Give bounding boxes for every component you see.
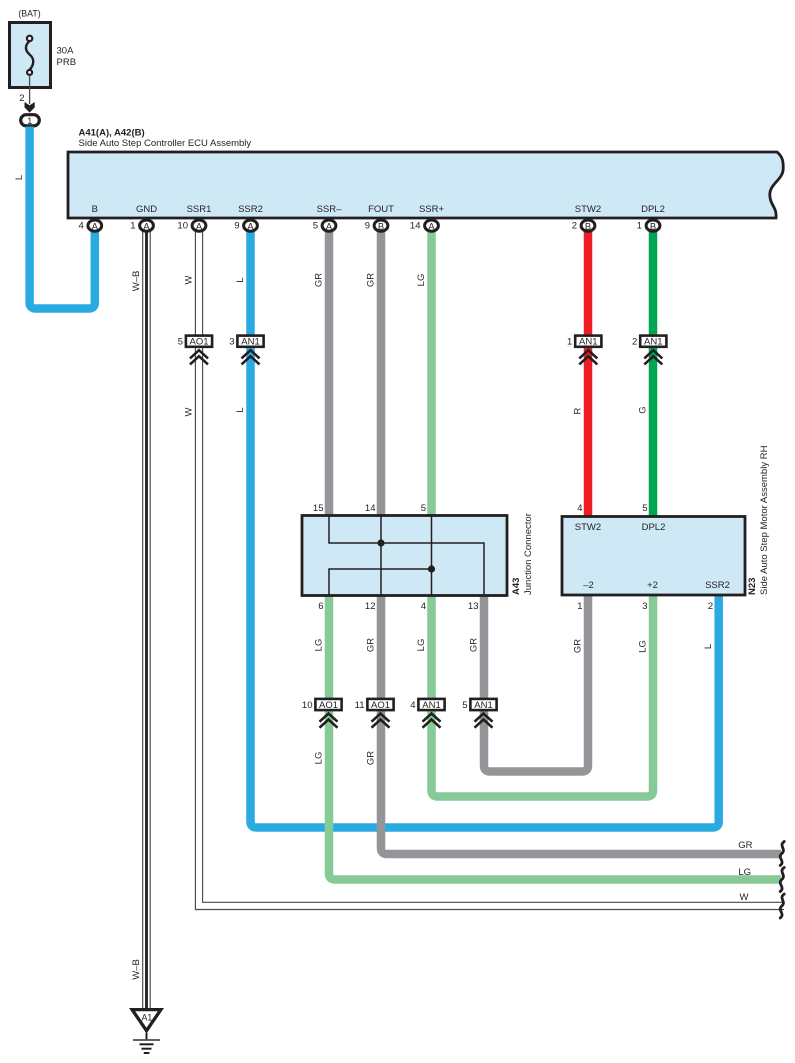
svg-text:A: A	[92, 220, 99, 231]
ECU pin 4 (A)	[79, 220, 102, 232]
wire fuse pin 2 lead	[29, 75, 31, 104]
svg-text:DPL2: DPL2	[641, 204, 665, 215]
ECU pin 14 (A)	[410, 220, 438, 232]
svg-text:AO1: AO1	[371, 700, 390, 711]
junction connector A43 box	[302, 516, 507, 596]
svg-text:5: 5	[178, 337, 183, 348]
svg-text:12: 12	[365, 601, 376, 612]
svg-text:1: 1	[637, 221, 642, 232]
svg-text:Side Auto Step Motor Assembly: Side Auto Step Motor Assembly RH	[759, 445, 770, 595]
svg-text:B: B	[650, 220, 656, 231]
svg-text:+2: +2	[647, 580, 658, 591]
svg-text:A: A	[196, 220, 203, 231]
svg-text:GR: GR	[366, 751, 377, 765]
svg-text:L: L	[235, 407, 246, 412]
svg-text:30A: 30A	[57, 46, 75, 57]
svg-text:GR: GR	[366, 273, 377, 287]
svg-text:AN1: AN1	[644, 337, 662, 348]
svg-text:A1: A1	[142, 1013, 153, 1023]
svg-text:4: 4	[421, 601, 426, 612]
ECU pin 9 (B)	[365, 220, 388, 232]
svg-text:W–B: W–B	[131, 959, 142, 980]
svg-text:1: 1	[130, 221, 135, 232]
svg-text:LG: LG	[638, 640, 649, 653]
svg-text:A: A	[247, 220, 254, 231]
svg-text:AO1: AO1	[189, 337, 208, 348]
svg-text:SSR1: SSR1	[187, 204, 212, 215]
svg-text:DPL2: DPL2	[642, 522, 666, 533]
svg-text:10: 10	[177, 221, 188, 232]
svg-text:9: 9	[234, 221, 239, 232]
wire R STW2 from ECU to motor pin 4	[584, 230, 593, 518]
svg-text:14: 14	[365, 503, 376, 514]
connector 10 AO1	[302, 699, 342, 728]
svg-text:4: 4	[577, 503, 582, 514]
svg-text:6: 6	[318, 601, 323, 612]
svg-text:4: 4	[79, 221, 84, 232]
svg-text:G: G	[638, 406, 649, 413]
svg-text:GR: GR	[469, 638, 480, 652]
ECU pin 1 (B)	[637, 220, 660, 232]
svg-text:(BAT): (BAT)	[18, 9, 40, 19]
svg-text:3: 3	[642, 601, 647, 612]
svg-text:W: W	[740, 892, 749, 903]
ECU pin 5 (A)	[313, 220, 336, 232]
svg-text:GR: GR	[573, 639, 584, 653]
svg-text:2: 2	[19, 93, 24, 104]
svg-text:L: L	[703, 644, 714, 649]
ground symbol A1	[129, 1008, 164, 1053]
svg-text:GR: GR	[366, 638, 377, 652]
fuse 30A PRB	[10, 23, 51, 88]
svg-text:AN1: AN1	[422, 700, 440, 711]
junction A43 internal wiring	[329, 516, 484, 595]
svg-text:B: B	[92, 204, 98, 215]
break squiggle W wire	[780, 894, 784, 918]
svg-text:5: 5	[462, 700, 467, 711]
svg-text:15: 15	[313, 503, 324, 514]
svg-text:5: 5	[642, 503, 647, 514]
fuse value label 30A PRB	[57, 46, 77, 68]
svg-text:LG: LG	[314, 639, 325, 652]
connector 4 AN1	[410, 699, 444, 728]
svg-text:–2: –2	[583, 580, 594, 591]
svg-text:GR: GR	[314, 273, 325, 287]
wire GR from junction pin 13 to motor pin 1	[484, 594, 588, 772]
svg-text:LG: LG	[738, 867, 751, 878]
svg-text:AN1: AN1	[241, 337, 259, 348]
svg-text:FOUT: FOUT	[368, 204, 394, 215]
svg-text:A43: A43	[511, 578, 522, 595]
wire LG from junction pin 4 to motor pin 3	[432, 594, 654, 797]
svg-text:3: 3	[229, 337, 234, 348]
svg-text:11: 11	[355, 700, 365, 711]
svg-text:A: A	[143, 220, 150, 231]
svg-text:A: A	[428, 220, 435, 231]
ECU A41/A42 Side Auto Step Controller box	[68, 152, 783, 218]
svg-text:W: W	[184, 407, 195, 416]
svg-text:4: 4	[410, 700, 415, 711]
connector 11 AO1	[355, 699, 394, 728]
connector 5 AO1	[178, 336, 212, 365]
svg-text:R: R	[573, 407, 584, 414]
svg-text:PRB: PRB	[57, 57, 77, 68]
svg-text:14: 14	[410, 221, 421, 232]
wire LG SSR+ from ECU to junction pin 5	[427, 230, 436, 517]
svg-text:B: B	[378, 220, 384, 231]
svg-text:10: 10	[302, 700, 313, 711]
svg-text:W–B: W–B	[131, 271, 142, 292]
wire W (SSR1) from ECU to right edge	[195, 230, 784, 910]
svg-text:5: 5	[313, 221, 318, 232]
svg-text:Junction Connector: Junction Connector	[523, 513, 534, 595]
svg-text:GR: GR	[738, 840, 752, 851]
svg-text:5: 5	[421, 503, 426, 514]
wire LG from junction pin 6 to right edge	[329, 594, 781, 880]
svg-text:SSR+: SSR+	[419, 204, 445, 215]
connector circle 1 (female)	[21, 115, 40, 126]
svg-text:2: 2	[572, 221, 577, 232]
svg-text:2: 2	[708, 601, 713, 612]
break squiggle LG wire	[780, 868, 784, 892]
svg-text:AN1: AN1	[579, 337, 597, 348]
svg-text:B: B	[585, 220, 591, 231]
wire GR FOUT from ECU to junction pin 14	[377, 230, 386, 517]
svg-text:SSR–: SSR–	[317, 204, 343, 215]
svg-text:LG: LG	[416, 639, 427, 652]
wire GR from junction pin 12 to right edge	[381, 594, 781, 854]
wire G DPL2 from ECU to motor pin 5	[649, 230, 658, 518]
svg-text:9: 9	[365, 221, 370, 232]
svg-text:SSR2: SSR2	[705, 580, 730, 591]
svg-text:A: A	[326, 220, 333, 231]
motor assembly N23 box	[562, 517, 745, 596]
svg-text:STW2: STW2	[575, 204, 601, 215]
svg-text:2: 2	[632, 337, 637, 348]
wire GR SSR- from ECU to junction pin 15	[325, 230, 334, 517]
svg-text:STW2: STW2	[575, 522, 601, 533]
ECU pin 10 (A)	[177, 220, 205, 232]
connector 1 AN1	[567, 336, 601, 365]
svg-text:AO1: AO1	[319, 700, 338, 711]
svg-text:L: L	[14, 175, 25, 180]
svg-text:LG: LG	[314, 752, 325, 765]
svg-text:LG: LG	[416, 274, 427, 287]
ECU pin 9 (A)	[234, 220, 257, 232]
svg-text:13: 13	[468, 601, 479, 612]
wire L (blue) SSR2 from ECU to motor SSR2	[251, 230, 719, 828]
ECU pin 1 (A)	[130, 220, 153, 232]
svg-text:N23: N23	[747, 578, 758, 595]
svg-text:AN1: AN1	[474, 700, 492, 711]
connector arrow (male)	[25, 102, 35, 113]
svg-text:1: 1	[567, 337, 572, 348]
svg-text:GND: GND	[136, 204, 157, 215]
connector 3 AN1	[229, 336, 263, 365]
wire L (blue) from battery connector to ECU pin B	[30, 127, 95, 309]
svg-text:A41(A), A42(B): A41(A), A42(B)	[79, 128, 145, 139]
ECU pin 2 (B)	[572, 220, 595, 232]
wire W-B (GND) from ECU to ground A1	[143, 230, 151, 1010]
connector 2 AN1	[632, 336, 666, 365]
break squiggle GR wire	[780, 842, 784, 866]
svg-text:Side Auto Step Controller ECU: Side Auto Step Controller ECU Assembly	[79, 138, 252, 149]
svg-text:1: 1	[577, 601, 582, 612]
svg-text:SSR2: SSR2	[238, 204, 263, 215]
connector 5 AN1	[462, 699, 496, 728]
svg-text:L: L	[235, 277, 246, 282]
svg-text:1: 1	[27, 116, 32, 126]
svg-text:W: W	[184, 275, 195, 284]
